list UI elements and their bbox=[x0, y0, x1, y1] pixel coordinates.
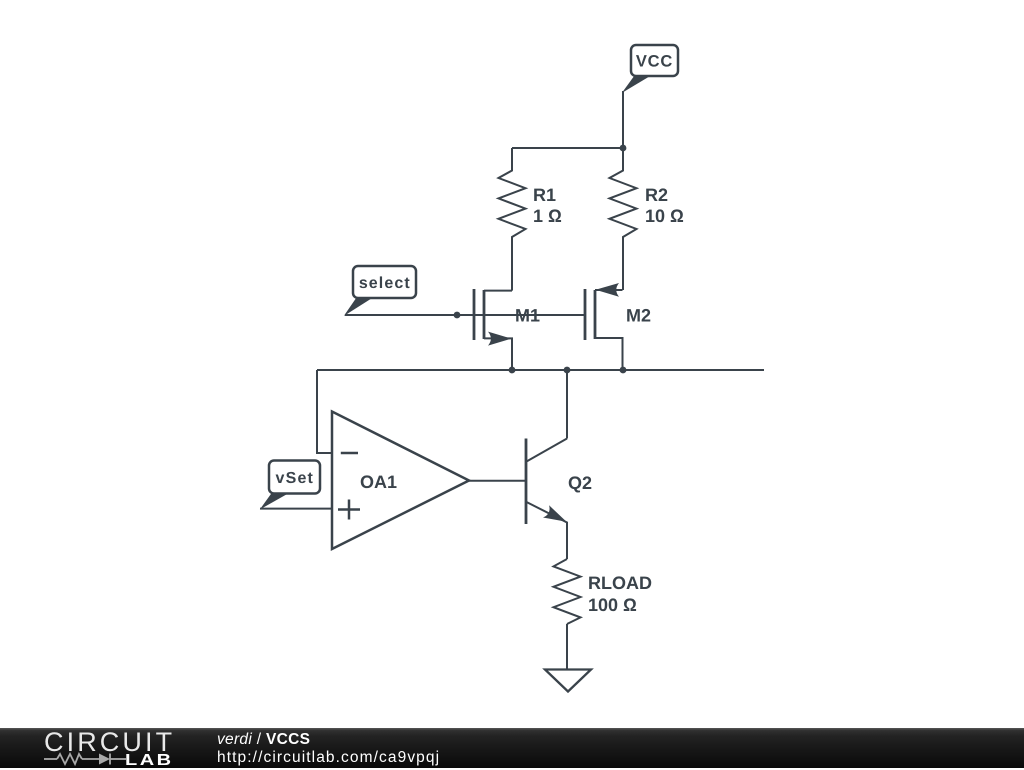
junction rail Q2 bbox=[564, 367, 571, 374]
wire vSet to OA1 non-inverting input bbox=[260, 508, 331, 510]
wire OA1 output to Q2 base bbox=[468, 480, 525, 482]
label RLOAD 100 Ω bbox=[588, 573, 652, 615]
transistor M2 bbox=[585, 283, 623, 370]
svg-text:R2: R2 bbox=[645, 185, 668, 205]
wire select to gates bbox=[345, 314, 585, 316]
svg-text:VCC: VCC bbox=[636, 52, 673, 70]
svg-text:Q2: Q2 bbox=[568, 473, 592, 493]
resistor R1 bbox=[499, 148, 526, 291]
svg-text:vSet: vSet bbox=[275, 470, 314, 487]
net flag VCC bbox=[622, 45, 678, 93]
wire VCC to node bbox=[622, 91, 624, 148]
ground bbox=[545, 670, 591, 692]
label R2 10 Ω bbox=[645, 185, 684, 226]
wire source rail bbox=[317, 369, 764, 371]
junction rail M2 bbox=[620, 367, 627, 374]
resistor R2 bbox=[610, 148, 637, 290]
wire top horizontal bbox=[512, 147, 623, 149]
wire RLOAD to ground bbox=[566, 624, 568, 669]
op-amp OA1 bbox=[332, 412, 469, 550]
footer title bbox=[217, 731, 310, 749]
junction rail M1 bbox=[509, 367, 516, 374]
net flag vSet bbox=[260, 461, 320, 510]
svg-text:OA1: OA1 bbox=[360, 472, 397, 492]
net flag select bbox=[344, 266, 416, 316]
junction on select wire bbox=[454, 312, 461, 319]
svg-text:10 Ω: 10 Ω bbox=[645, 206, 684, 226]
wire Q2 emitter bbox=[566, 522, 568, 559]
CircuitLab logo bbox=[44, 727, 175, 758]
svg-text:select: select bbox=[359, 275, 411, 292]
wire rail to OA1 inverting input bbox=[317, 370, 331, 453]
svg-text:M2: M2 bbox=[626, 306, 651, 326]
footer url bbox=[217, 749, 440, 767]
wire Q2 collector bbox=[566, 370, 568, 439]
junction at VCC node bbox=[620, 145, 627, 152]
transistor M1 bbox=[474, 289, 512, 370]
transistor Q2 bbox=[526, 439, 567, 525]
svg-text:100 Ω: 100 Ω bbox=[588, 595, 637, 615]
svg-text:RLOAD: RLOAD bbox=[588, 573, 652, 593]
label R1 1 Ω bbox=[533, 185, 562, 226]
resistor RLOAD bbox=[554, 559, 581, 624]
svg-text:R1: R1 bbox=[533, 185, 556, 205]
svg-text:1 Ω: 1 Ω bbox=[533, 206, 562, 226]
